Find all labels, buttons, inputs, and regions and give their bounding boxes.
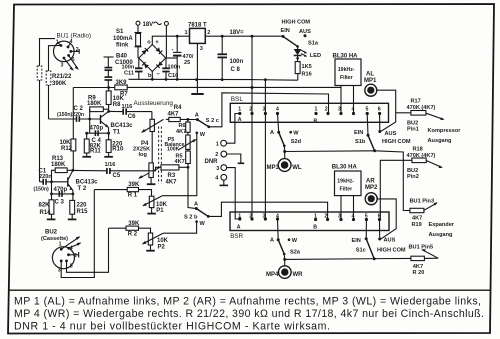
BU2 pin 3 (60, 260, 63, 263)
svg-text:BSR: BSR (230, 233, 243, 240)
BSR pin B2 (326, 218, 329, 221)
wire BSL B5 to S1b EIN (366, 114, 369, 136)
potentiometer P1 10K (149, 196, 154, 207)
svg-text:1: 1 (315, 107, 318, 113)
svg-text:AUS: AUS (385, 131, 397, 137)
resistor R16 1K5 (297, 56, 299, 62)
svg-text:C5: C5 (113, 173, 121, 179)
capacitor 470u/25 electrolytic (176, 36, 178, 52)
svg-text:A: A (195, 112, 199, 118)
svg-text:Filter: Filter (340, 75, 353, 81)
svg-text:R11: R11 (90, 148, 101, 154)
wiper arrow P4 lower to R3 (139, 167, 161, 179)
BSR pin A2 (250, 217, 253, 220)
svg-text:MP 1 (AL) = Aufnahme links, MP: MP 1 (AL) = Aufnahme links, MP 2 (AR) = … (14, 295, 481, 307)
fuse S1 100mA flink (135, 32, 142, 34)
BSL pin A3 (264, 112, 267, 115)
caption separator rule (9, 289, 491, 291)
capacitor C2 (150n)220n (49, 118, 76, 120)
svg-text:S 2 b: S 2 b (184, 215, 198, 221)
AC input terminal right (164, 22, 168, 26)
bridge diode 4 (156, 61, 163, 68)
svg-text:100mA: 100mA (113, 36, 133, 42)
capacitor C3 470p (51, 182, 53, 194)
svg-text:(150n): (150n) (34, 186, 50, 192)
svg-text:P1: P1 (156, 208, 164, 214)
node A switch S2c (186, 118, 189, 121)
arrow R18 to BU2 Pin2 (426, 161, 442, 168)
svg-text:A: A (237, 224, 241, 230)
capacitor C10 100n (166, 57, 178, 59)
resistor R12 10K (72, 88, 74, 140)
svg-text:AR: AR (366, 178, 375, 184)
svg-text:C6: C6 (128, 114, 136, 120)
svg-text:MP1: MP1 (364, 78, 377, 84)
capacitor chain above R7 with top stub (104, 56, 114, 58)
svg-text:1: 1 (185, 30, 188, 36)
svg-text:82K: 82K (39, 202, 51, 208)
svg-text:R 1: R 1 (128, 193, 138, 199)
wire BU1 to C2 via R22 (49, 46, 62, 72)
svg-text:2: 2 (74, 253, 77, 259)
svg-text:R 20: R 20 (413, 270, 425, 276)
svg-text:Aussteuerung: Aussteuerung (134, 100, 174, 107)
svg-text:Expander: Expander (429, 222, 455, 228)
resistor R21 390K dashed (37, 66, 42, 80)
resistor R2 39K (109, 227, 127, 229)
svg-text:WR: WR (293, 272, 304, 278)
svg-text:R21/22: R21/22 (52, 74, 72, 80)
svg-text:1: 1 (314, 214, 317, 220)
svg-text:Pin1: Pin1 (407, 126, 419, 132)
svg-text:470p: 470p (90, 125, 104, 131)
resistor R18 470K (380, 160, 412, 219)
svg-text:S2a: S2a (290, 250, 301, 256)
wire S2c to BSL pin B2 (209, 93, 329, 127)
resistor R14 82K (51, 194, 53, 200)
svg-text:Filter: Filter (340, 187, 353, 193)
wire MP2 to S1c AUS (377, 199, 396, 239)
svg-text:DNR: DNR (205, 159, 219, 165)
svg-text:S1: S1 (116, 29, 124, 35)
resistor R4 4K7 (169, 117, 180, 121)
svg-text:T 2: T 2 (78, 186, 87, 192)
svg-text:MP 4 (WR) = Wiedergabe rechts.: MP 4 (WR) = Wiedergabe rechts. R 21/22, … (14, 308, 484, 320)
svg-text:2: 2 (215, 152, 218, 158)
svg-text:3: 3 (58, 268, 61, 274)
svg-text:MP2: MP2 (365, 185, 378, 191)
svg-text:19kHz-: 19kHz- (337, 179, 354, 185)
svg-text:4K7: 4K7 (166, 179, 178, 185)
svg-text:3: 3 (263, 214, 266, 220)
resistor R8 10K (108, 88, 110, 91)
svg-text:2: 2 (324, 214, 327, 220)
svg-text:1: 1 (59, 242, 62, 248)
ground P1 (147, 213, 156, 215)
BU2 pin 4 (67, 247, 70, 250)
BSR pin B1 (314, 218, 317, 221)
test point MP4 WR (284, 259, 286, 266)
BU2 pin 5 (65, 260, 68, 263)
svg-text:5: 5 (365, 214, 368, 220)
svg-text:BU1 Pin5: BU1 Pin5 (409, 244, 434, 250)
svg-text:100n: 100n (122, 64, 135, 70)
svg-text:R19: R19 (412, 222, 422, 228)
test point MP3 WL (284, 152, 286, 159)
wire BSL A3 ground down to BSR A3 (264, 80, 266, 219)
wire S2b to BSR pin B2 (208, 202, 327, 219)
svg-text:4: 4 (215, 176, 219, 182)
svg-text:AUS: AUS (384, 238, 396, 244)
ground 7818 pin3 (196, 43, 198, 93)
ground R11 (82, 156, 91, 158)
svg-text:220: 220 (77, 202, 88, 208)
arrow R20 to BU1 Pin5 (422, 250, 438, 258)
wire W net S2b to P2 wiper (163, 222, 197, 234)
svg-text:5: 5 (366, 107, 369, 113)
BU1 pin 4 (67, 46, 70, 49)
BSR pin A1 (238, 217, 241, 220)
ground R15 (68, 218, 77, 220)
node W switch S2c (196, 132, 199, 135)
wire BU2 pin5 to R2 (67, 228, 109, 272)
transistor T2 BC413c (67, 177, 69, 186)
svg-text:B40: B40 (116, 54, 128, 60)
wire supply line B (73, 87, 115, 89)
BU1 output arrows (69, 55, 78, 69)
svg-text:BC413c: BC413c (76, 180, 99, 186)
svg-text:2: 2 (207, 30, 210, 36)
svg-text:+: + (155, 40, 159, 46)
svg-text:39K: 39K (128, 182, 140, 188)
svg-text:Pin2: Pin2 (407, 174, 419, 180)
svg-text:100n: 100n (168, 64, 181, 70)
wire BSL A1 elbow to DNR1 (227, 114, 240, 144)
svg-text:7818 T: 7818 T (188, 22, 207, 28)
ground P4 (147, 183, 156, 185)
BU2 pin 1 (60, 248, 63, 251)
svg-text:log: log (139, 152, 148, 158)
svg-text:DNR 1 - 4 nur bei vollbestückt: DNR 1 - 4 nur bei vollbestückter HIGHCOM… (14, 320, 330, 332)
svg-text:BU2: BU2 (45, 230, 58, 236)
svg-text:BL30 HA: BL30 HA (332, 164, 358, 170)
bridge diode 3 (142, 62, 149, 69)
svg-text:470K (4K7): 470K (4K7) (407, 153, 436, 159)
svg-text:4K7: 4K7 (412, 215, 422, 221)
svg-text:S2d: S2d (291, 139, 302, 145)
wire common line S2d to S1b (285, 150, 375, 153)
BSR pin B4 (352, 218, 355, 221)
svg-text:R 2: R 2 (128, 231, 138, 237)
svg-text:AUS: AUS (299, 29, 311, 35)
ground R14 (47, 218, 56, 220)
wire 18V= rail (205, 35, 283, 37)
resistor R11 82K (86, 133, 88, 139)
capacitor C4 470p (89, 119, 91, 133)
svg-text:6: 6 (378, 107, 381, 113)
svg-text:EIN: EIN (352, 238, 361, 244)
potentiometer P5 Balance 100K (187, 132, 189, 135)
svg-text:HIGH COM: HIGH COM (382, 139, 411, 145)
resistor R15 220 (72, 194, 74, 201)
svg-text:25: 25 (184, 60, 190, 66)
BSL pin A1 (238, 112, 241, 115)
svg-text:R12: R12 (61, 146, 73, 152)
BU2 pin 2 with stub (67, 253, 70, 256)
BU1 pin 5 (67, 54, 70, 57)
svg-text:o: o (147, 40, 151, 46)
svg-text:R10: R10 (112, 147, 124, 153)
potentiometer P4 upper section (151, 112, 153, 120)
svg-text:BU1 Pin3: BU1 Pin3 (410, 198, 435, 204)
node T2 base (50, 180, 53, 183)
svg-text:HIGH COM: HIGH COM (282, 20, 311, 26)
svg-text:C11: C11 (124, 71, 134, 77)
resistor R13 180K (55, 168, 67, 173)
svg-text:W: W (200, 132, 206, 138)
bridge diode 2 (156, 47, 163, 54)
BSL pin B4 (352, 112, 355, 115)
node 470u top (176, 35, 179, 38)
svg-text:flink: flink (116, 42, 129, 48)
svg-text:W: W (293, 130, 299, 136)
arrow R17 to BU2 Pin1 (426, 113, 444, 119)
BSR pin A4 (276, 217, 279, 220)
svg-text:R14: R14 (40, 210, 52, 216)
ground P2 (146, 250, 155, 252)
potentiometer P4 gang dashed link (158, 127, 160, 185)
svg-text:S1a: S1a (308, 40, 319, 46)
svg-text:–: – (157, 72, 161, 78)
svg-text:390K: 390K (52, 81, 67, 87)
BSR pin B3 (339, 218, 342, 221)
svg-text:EIN: EIN (354, 130, 363, 136)
resistor R5 4K7 (187, 149, 189, 151)
wire DNR3 to BSR A1 (227, 168, 240, 219)
ground DNR4 (220, 184, 229, 186)
BU1 pin 2 with stub (69, 50, 72, 53)
resistor R6 4K7 (187, 119, 189, 122)
svg-text:180K: 180K (51, 162, 66, 168)
svg-text:18V: 18V (143, 22, 154, 28)
svg-text:19kHz-: 19kHz- (338, 67, 355, 73)
BSR pin B5 (365, 218, 368, 221)
svg-text:(Cassette): (Cassette) (41, 236, 68, 242)
resistor R1 39K (94, 189, 127, 191)
svg-text:1: 1 (238, 214, 241, 220)
potentiometer P2 10K (148, 233, 152, 245)
svg-text:S1c: S1c (356, 247, 366, 253)
svg-text:Kompressor: Kompressor (428, 128, 462, 134)
wiper arrow P5 to W net (179, 140, 195, 150)
wire BSL B6 to S1b AUS (379, 114, 381, 132)
BSL pin B2 (326, 112, 329, 115)
svg-text:LED: LED (310, 53, 321, 59)
regulator U 7818 T (190, 28, 206, 43)
svg-text:A: A (238, 117, 242, 123)
wire common line S2a to R20 (285, 258, 411, 259)
potentiometer P4 lower section (149, 163, 153, 178)
svg-text:1K5: 1K5 (302, 64, 312, 70)
svg-text:R3: R3 (168, 173, 176, 179)
svg-text:5: 5 (70, 264, 73, 270)
switch S2b (195, 207, 198, 210)
resistor R17 470K (411, 111, 426, 116)
wire bridge minus to 0V rail (151, 72, 153, 80)
svg-text:1/16: 1/16 (122, 104, 133, 110)
svg-text:3K9: 3K9 (116, 80, 128, 86)
node R7 left (107, 86, 110, 89)
svg-text:A: A (270, 238, 274, 244)
svg-text:4K7: 4K7 (175, 159, 185, 165)
DNR terminal 1 (221, 140, 227, 146)
svg-text:B: B (313, 224, 317, 230)
svg-text:1: 1 (216, 141, 219, 147)
svg-text:2: 2 (249, 214, 252, 220)
resistor R19 4K7 expander (375, 151, 410, 211)
BU2 record arrows (61, 237, 79, 249)
capacitor C6 1/16 (109, 110, 123, 112)
svg-text:470p: 470p (54, 187, 68, 193)
resistor R10 220 (108, 133, 110, 140)
BU1 pin 1 (60, 44, 63, 47)
svg-text:R4: R4 (174, 105, 182, 111)
capacitor C5 1/16 (110, 167, 161, 171)
svg-text:A: A (194, 202, 198, 208)
svg-text:100n: 100n (230, 59, 244, 65)
svg-text:470K (4K7): 470K (4K7) (407, 105, 436, 111)
wire BU1 to C1 via R21 (40, 39, 56, 66)
wire +18V drop to line B (251, 36, 253, 87)
resistor R20 4K7 (411, 256, 425, 260)
svg-text:C 8: C 8 (231, 67, 241, 73)
svg-text:B: B (314, 119, 318, 125)
svg-text:1: 1 (238, 107, 241, 113)
resistor R22 390K dashed (46, 71, 51, 85)
wire A net to switch S2b (188, 167, 196, 208)
svg-text:R18: R18 (413, 147, 423, 153)
BSR pin A3 (264, 217, 267, 220)
svg-text:P2: P2 (158, 245, 166, 251)
node T2 collector (72, 169, 75, 172)
wire filter to BSL B3 B4 (340, 86, 342, 114)
wire BSL A4 to S2d (278, 114, 279, 133)
BSL pin B6 (378, 112, 381, 115)
svg-text:S 2 c: S 2 c (206, 118, 219, 124)
BU1 pin 3 (63, 57, 66, 60)
svg-text:AL: AL (366, 71, 374, 77)
svg-text:S1b: S1b (355, 139, 366, 145)
svg-text:4: 4 (276, 214, 279, 220)
wire P4 chain (151, 132, 153, 163)
svg-text:4K7: 4K7 (176, 129, 186, 135)
svg-text:EIN: EIN (281, 28, 290, 34)
svg-text:R15: R15 (77, 209, 89, 215)
svg-text:W: W (200, 221, 206, 227)
svg-text:220n: 220n (39, 174, 52, 180)
svg-text:W: W (292, 238, 298, 244)
svg-text:C 3: C 3 (55, 199, 65, 205)
svg-text:4K7: 4K7 (168, 111, 180, 117)
wire 0V rail (line A) (129, 78, 298, 81)
DNR terminal 3 (221, 165, 227, 171)
bridge rectifier B40 diamond (139, 45, 166, 72)
BSL pin B1 (314, 112, 317, 115)
BSL pin B3 (339, 112, 342, 115)
svg-text:3: 3 (200, 46, 203, 52)
DNR terminal 4 (221, 174, 227, 180)
AC input terminal left (136, 21, 140, 25)
svg-text:4: 4 (276, 107, 279, 113)
svg-text:2: 2 (325, 107, 328, 113)
transistor T1 BC413c (100, 115, 102, 124)
capacitor C1 (150n)220n (40, 181, 43, 183)
wire bridge plus riser to 18V rail (152, 36, 189, 44)
svg-text:3: 3 (61, 62, 64, 68)
wire lower filter to BSR B3 B4 (340, 196, 342, 220)
BSL pin A4 (276, 112, 279, 115)
arrow R19 to BU1 Pin3 (424, 203, 437, 210)
resistor R9 180K (90, 107, 104, 112)
svg-text:+: + (171, 48, 174, 53)
svg-text:MP4: MP4 (266, 272, 279, 278)
svg-text:R17: R17 (411, 98, 421, 104)
svg-text:MP3: MP3 (267, 165, 280, 171)
wire W net to P1 wiper (162, 133, 197, 196)
svg-text:1/16: 1/16 (105, 162, 116, 168)
connector strip BSR (230, 212, 389, 231)
resistor R7 3K9 (115, 85, 127, 90)
svg-text:R8: R8 (113, 102, 121, 108)
svg-text:T1: T1 (113, 129, 121, 135)
node T1 collector (107, 110, 110, 113)
wire AC left to fuse (137, 25, 139, 32)
node R3/R5 junction (187, 166, 190, 169)
svg-text:BU1 (Radio): BU1 (Radio) (57, 32, 92, 39)
svg-text:HIGH COM: HIGH COM (377, 248, 406, 254)
wire AC right down to bridge (165, 26, 167, 59)
svg-text:3: 3 (216, 166, 219, 172)
node W switch S2b (195, 220, 198, 223)
svg-text:39K: 39K (128, 221, 140, 227)
svg-text:BC413c: BC413c (111, 123, 134, 129)
svg-text:100K: 100K (167, 146, 180, 152)
bridge diode 1 (142, 48, 149, 55)
svg-text:Ausgang: Ausgang (429, 232, 454, 238)
svg-text:10K: 10K (157, 238, 169, 244)
wire BSR B5 to S1c EIN (365, 220, 367, 239)
LED (297, 46, 299, 49)
node T1 base (88, 118, 91, 121)
svg-text:A: A (270, 130, 274, 136)
wire MP1 to R17 and S1b AUS (377, 90, 396, 131)
resistor R3 4K7 (161, 165, 179, 170)
svg-text:180K: 180K (87, 101, 102, 107)
wire BSR B6 to S1c AUS (379, 220, 381, 239)
wire BU2 pin3 to R1 (61, 190, 94, 278)
svg-text:WL: WL (292, 165, 302, 171)
capacitor C8 100n (221, 35, 224, 38)
BSL pin A2 (250, 112, 253, 115)
svg-text:(150n)220n: (150n)220n (57, 112, 84, 118)
DNR terminal 2 (221, 151, 227, 157)
BSR pin B6 (378, 218, 381, 221)
ground R10 (104, 156, 113, 158)
svg-text:R16: R16 (302, 72, 312, 78)
svg-text:b: b (148, 73, 152, 79)
svg-text:Ausgang: Ausgang (428, 138, 453, 144)
svg-text:BSL: BSL (231, 96, 244, 103)
